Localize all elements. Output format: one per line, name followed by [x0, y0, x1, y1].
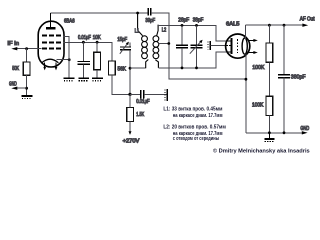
ground symbol cap screen — [78, 78, 89, 81]
cathode 6AL5 — [242, 38, 247, 54]
wire B+ bypass — [130, 93, 140, 95]
arrow GND left — [11, 87, 17, 90]
ground symbol sideways B+ — [165, 89, 167, 101]
ground symbol sideways shield — [208, 41, 210, 50]
svg-text:0.01µF: 0.01µF — [136, 99, 150, 105]
shield lead dashed — [226, 44, 230, 46]
node 38pF top junction — [195, 24, 198, 27]
svg-text:10K: 10K — [93, 35, 102, 41]
capacitor 39pF — [148, 8, 151, 16]
svg-text:на каркасе диам. 17.7мм: на каркасе диам. 17.7мм — [173, 113, 223, 119]
node gnd junction 380pF — [283, 131, 286, 134]
wire g3 ground lead — [63, 36, 69, 77]
wire 50K top lead — [26, 49, 28, 62]
capacitor 38pF variable — [196, 25, 198, 44]
svg-text:50K: 50K — [12, 66, 19, 72]
wire 6AL5 top lead — [245, 25, 247, 39]
grid g1 6BA6 — [42, 48, 61, 50]
inductor L2 — [153, 25, 159, 68]
heater lead left — [43, 62, 46, 70]
wire 50K bottom lead — [26, 75, 28, 95]
svg-text:L1: L1 — [135, 29, 140, 35]
svg-text:39pF: 39pF — [145, 18, 155, 24]
capacitor 28pF — [181, 25, 183, 44]
svg-text:с отводом от середины: с отводом от середины — [173, 136, 220, 142]
svg-text:L2: L2 — [162, 28, 167, 34]
node plate/L1 junction — [136, 12, 139, 15]
capacitor 0.01uF screen — [82, 42, 84, 61]
svg-text:GND: GND — [9, 81, 17, 87]
wire screen node — [64, 41, 112, 43]
arrow GND right — [302, 131, 308, 134]
arrow +270V — [129, 131, 132, 135]
node 28pF bottom junction — [181, 67, 184, 70]
node return junction — [245, 78, 248, 81]
resistor 50K — [23, 62, 30, 75]
ground symbol 10K — [92, 78, 103, 81]
svg-text:L1: 33 витка пров. 0.45мм: L1: 33 витка пров. 0.45мм — [163, 106, 222, 112]
wire L2 center tap — [159, 43, 169, 45]
grid g2 6BA6 — [42, 41, 61, 43]
svg-text:+270V: +270V — [123, 139, 141, 145]
node grid/50K junction — [25, 47, 28, 50]
node 28pF top junction — [181, 24, 184, 27]
svg-text:15pF: 15pF — [117, 37, 127, 43]
svg-text:AF Out: AF Out — [300, 16, 315, 22]
svg-text:1.5K: 1.5K — [136, 112, 144, 118]
wire AF out — [246, 24, 305, 26]
svg-text:100K: 100K — [252, 65, 265, 71]
wire L1 bottom feed — [130, 67, 146, 69]
tube 6AL5 — [226, 34, 250, 58]
svg-text:6AL5: 6AL5 — [226, 22, 240, 28]
node cathode junction — [68, 58, 71, 61]
svg-text:100K: 100K — [252, 102, 264, 108]
ground symbol right — [264, 133, 274, 142]
wire tank bottom rail — [158, 52, 227, 68]
resistor 56K — [111, 42, 113, 61]
wire 6AL5 bottom lead — [245, 54, 247, 133]
svg-text:38pF: 38pF — [193, 17, 204, 23]
svg-text:380pF: 380pF — [291, 75, 306, 81]
node cap 0.01 junction — [82, 41, 85, 44]
cathode 6BA6 — [42, 59, 59, 63]
shield dashed 6AL5 — [236, 39, 238, 53]
wire plate lead — [50, 13, 52, 27]
grid g3 6BA6 — [42, 34, 61, 36]
node 380pF top junction — [283, 24, 286, 27]
svg-text:6BA6: 6BA6 — [64, 19, 75, 25]
arrow AF out — [302, 24, 308, 27]
wire plate lower inside — [227, 51, 231, 53]
arrow cathode lower — [248, 51, 257, 54]
wire GND stub — [14, 87, 27, 89]
node gnd junction 100K — [268, 131, 271, 134]
svg-text:56K: 56K — [118, 66, 127, 72]
resistor 100K upper — [268, 25, 270, 43]
plate bar 6BA6 — [46, 27, 56, 29]
svg-text:0.01µF: 0.01µF — [78, 35, 91, 41]
node B+ junction — [128, 93, 131, 96]
wire grid input — [14, 48, 42, 50]
wire plate top rail — [51, 12, 148, 14]
node 10K junction — [96, 41, 99, 44]
node 38pF bottom junction — [195, 67, 198, 70]
node 100K top junction — [268, 24, 271, 27]
wire plate upper inside — [227, 40, 231, 42]
svg-text:L2: 20 витков пров. 0.57мм: L2: 20 витков пров. 0.57мм — [163, 125, 226, 131]
wire cathode lead — [57, 59, 70, 61]
ground symbol tube — [64, 78, 75, 81]
wire tank top rail — [158, 25, 227, 41]
wire shield lead — [210, 44, 226, 46]
capacitor 380pF — [283, 25, 285, 74]
resistor 100K lower — [266, 96, 273, 115]
svg-text:GND: GND — [300, 126, 309, 132]
svg-text:IF In: IF In — [7, 41, 19, 47]
svg-text:© Dmitry Melnichansky aka Insa: © Dmitry Melnichansky aka Insadris — [213, 148, 310, 155]
plate bar 6AL5 — [231, 38, 233, 54]
capacitor 15pF variable — [129, 42, 131, 46]
ground symbol left — [21, 96, 32, 99]
arrow IF In — [11, 47, 17, 50]
node tap junction — [167, 42, 170, 45]
node 15pF/L1 bottom junction — [129, 67, 132, 70]
heater lead right — [55, 62, 58, 70]
resistor 10K — [96, 42, 98, 52]
resistor 1.5K — [127, 108, 134, 122]
svg-text:28pF: 28pF — [178, 17, 189, 23]
arrow cathode upper — [249, 39, 258, 42]
inductor L1 — [138, 14, 149, 69]
node GND stub junction — [25, 87, 28, 90]
wire ground rail — [246, 132, 304, 134]
tube 6BA6 envelope — [38, 21, 64, 67]
wire 39pF to tap drop — [151, 13, 246, 79]
capacitor 0.01uF B+ — [141, 90, 144, 98]
